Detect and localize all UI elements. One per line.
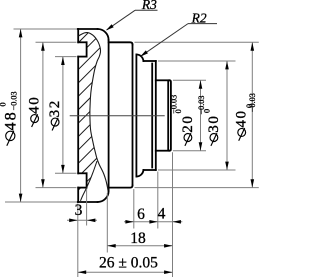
svg-text:0: 0 — [0, 102, 7, 106]
dim phi30 line — [226, 61, 228, 170]
R2 fillet top — [136, 54, 143, 61]
dim phi40-left ext bottom — [36, 187, 77, 189]
svg-text:−0.03: −0.03 — [9, 91, 18, 110]
step face inner line — [151, 64, 153, 168]
R3 corner bottom — [98, 191, 109, 202]
front groove (top) — [78, 41, 86, 43]
bottom face edge — [78, 201, 98, 203]
dim phi48 extension top — [14, 28, 77, 30]
dim 26 line — [78, 271, 173, 273]
dim phi32 ext top — [55, 56, 77, 58]
step line with R2 fillets — [135, 55, 137, 177]
dim 6/4/18/26 ext at right face — [172, 152, 174, 277]
dim 6/4 ext at collar face — [133, 189, 135, 228]
svg-text:−0.03: −0.03 — [169, 95, 178, 114]
svg-text:R2: R2 — [191, 10, 207, 25]
dim phi20 ext top — [173, 79, 206, 81]
dim 26 ext left — [77, 204, 79, 278]
dim phi40-right line — [251, 42, 253, 187]
dim phi30 ext bottom — [158, 169, 236, 171]
dim phi20 line — [200, 80, 202, 150]
phi30 bottom edge — [143, 169, 155, 171]
svg-text:4: 4 — [158, 206, 166, 223]
svg-text:−0.03: −0.03 — [248, 93, 257, 112]
dim 6/4 ext at step — [157, 172, 159, 229]
dim 3 ext right (groove wall) — [86, 189, 88, 226]
hatching of section — [0, 20, 262, 210]
svg-text:18: 18 — [130, 230, 146, 247]
leader R3 — [135, 9, 158, 11]
dim 6 and 4 line — [124, 221, 182, 223]
dim phi32 ext bottom — [55, 172, 77, 174]
phi20 top edge — [156, 79, 170, 81]
dim 18 line — [107, 245, 172, 247]
svg-text:26 ± 0.05: 26 ± 0.05 — [99, 255, 158, 272]
dim phi40-right ext top — [135, 41, 259, 43]
svg-text:6: 6 — [137, 206, 145, 223]
dim phi40-left line — [42, 42, 44, 187]
right end chamfer line — [167, 81, 169, 150]
svg-text:32: 32 — [47, 99, 63, 117]
svg-text:3: 3 — [75, 202, 83, 219]
phi30 top edge — [143, 60, 155, 62]
phi20 bottom edge — [156, 150, 170, 152]
part outline: left face — [77, 29, 79, 42]
front groove (bottom) — [78, 172, 86, 174]
phi40 collar bottom edge — [109, 185, 133, 187]
phi40 collar top edge — [109, 42, 133, 44]
phantom curve lower — [81, 161, 98, 201]
svg-text:40: 40 — [27, 96, 43, 114]
collar right face line — [132, 45, 134, 186]
dim phi30 ext top — [158, 60, 236, 62]
dim phi48 extension bottom — [5, 201, 77, 203]
phi30/phi20 step face — [155, 61, 157, 170]
R3 corner top — [98, 29, 109, 40]
dim phi20 ext bottom — [173, 150, 206, 152]
dim 18 ext at flange face — [106, 193, 108, 253]
svg-text:48: 48 — [1, 110, 19, 130]
centerline axis — [70, 115, 165, 117]
svg-text:20: 20 — [180, 114, 196, 132]
top face edge — [78, 28, 98, 30]
R2 fillet bottom — [136, 170, 143, 177]
dim phi32 line — [62, 57, 64, 174]
leader R2 — [188, 23, 217, 25]
dim phi40-left ext top — [36, 41, 77, 43]
dim 3 line — [67, 219, 97, 221]
right end face — [169, 80, 171, 150]
spoke section curve — [79, 33, 109, 191]
svg-text:R3: R3 — [141, 0, 157, 12]
flange right face — [108, 40, 110, 191]
svg-text:30: 30 — [206, 114, 222, 132]
svg-text:−0.03: −0.03 — [197, 96, 206, 115]
dim phi48 line — [20, 29, 22, 202]
dim phi40-right ext bottom — [135, 187, 259, 189]
